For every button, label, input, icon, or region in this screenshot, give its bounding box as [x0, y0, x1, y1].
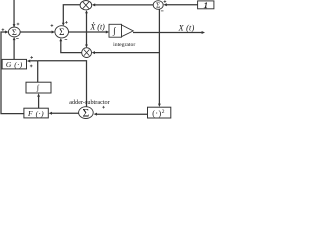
svg-text:X (t): X (t) [89, 23, 105, 32]
svg-text:G (·): G (·) [6, 60, 23, 69]
arrow into S1 left [5, 31, 8, 34]
wire G output up to S1 bottom input [13, 40, 15, 60]
arrow into M2 top [85, 45, 88, 48]
svg-text:Σ: Σ [156, 1, 160, 10]
sign plus S3 right [164, 0, 167, 3]
svg-text:integrator: integrator [113, 42, 135, 48]
arrow into squarer top [158, 104, 161, 107]
arrow into M2 right [92, 51, 95, 54]
wire F output up to integrator2 bottom [38, 97, 40, 109]
arrow into S1 top [13, 24, 16, 27]
wire integrator2 output junction to G input [30, 60, 38, 62]
wire squarer output to S4 right input [97, 113, 148, 115]
svg-text:adder-subtractor: adder-subtractor [69, 99, 109, 106]
wire X(t) feedback vertical [158, 9, 160, 104]
sign plus S2 top [65, 21, 68, 24]
wire const 1 box to S3 [166, 4, 197, 6]
wire F output left riser to S1 left input [1, 32, 24, 114]
function box G [2, 59, 26, 69]
wire X(t) branch to M2 right input [95, 52, 160, 54]
wire Xdot tap vertical to M1 and M2 [86, 13, 88, 45]
multiplier M2 [82, 48, 92, 58]
wire integrator output X(t) [133, 32, 202, 34]
arrow into G right [27, 60, 30, 63]
svg-text:Σ: Σ [59, 27, 64, 37]
wire M1 output to S2 top input [63, 5, 80, 24]
multiplier M1 [80, 1, 92, 10]
adder-subtractor summer S4 [79, 107, 94, 120]
wire S4 output to F right input [52, 112, 79, 114]
function box F [24, 108, 48, 118]
sign minus S3 bottom [161, 10, 164, 12]
arrow into S3 right [163, 3, 166, 6]
svg-text:Σ: Σ [83, 108, 90, 120]
squarer box [148, 107, 171, 118]
summer S1 [8, 27, 20, 37]
summer S3 [153, 1, 163, 10]
sign plus G junction upper [30, 56, 33, 59]
arrow into F right [49, 112, 52, 115]
wire S1 output to S2 [20, 31, 52, 33]
sign plus S2 left [51, 24, 54, 27]
sign plus S1 left [2, 28, 5, 31]
svg-text:1: 1 [204, 0, 208, 10]
integrator box U1 [109, 24, 133, 37]
summer S2 [55, 26, 69, 38]
sign minus S1 bottom [16, 37, 19, 39]
svg-text:Σ: Σ [12, 27, 17, 37]
wire top input into sum S1 [13, 0, 15, 27]
arrow into S4 right [94, 113, 97, 116]
arrow into M1 right [92, 3, 95, 6]
sign minus S2 bottom [65, 38, 68, 40]
arrow into S2 top [62, 23, 65, 26]
arrow into S1 bottom [13, 37, 16, 40]
wire S2 output to integrator [68, 31, 106, 33]
arrow into integrator left [106, 31, 109, 34]
arrow into M1 bottom [85, 10, 88, 13]
svg-text:F (·): F (·) [27, 109, 44, 118]
arrow into S2 left [52, 31, 55, 34]
wire junction down to integrator2 top [37, 61, 39, 82]
integrator box U2 [26, 82, 51, 93]
label Xdot(t) [89, 22, 105, 31]
svg-text:X (t): X (t) [178, 23, 195, 32]
wire junction right and down to S4 top [38, 61, 87, 107]
arrow into integrator2 bottom [37, 93, 40, 96]
sign plus S4 right [102, 106, 105, 109]
constant 1 box [198, 0, 214, 10]
sign plus S1 top [17, 23, 20, 26]
wire S3 output to M1 [95, 4, 154, 6]
sign plus G junction lower [30, 65, 33, 68]
arrow X(t) output right [202, 31, 205, 34]
wire M2 output to S2 bottom input [61, 41, 82, 53]
arrow into S2 bottom [59, 38, 62, 41]
